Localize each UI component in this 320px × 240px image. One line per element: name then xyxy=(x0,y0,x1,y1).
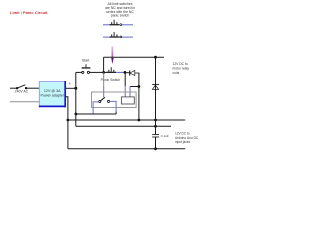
wire: start/panic line xyxy=(76,71,82,73)
svg-text:Limit / Panic Circuit: Limit / Panic Circuit xyxy=(10,10,48,15)
node: junction at panic drop xyxy=(102,71,105,74)
node: top wire junction xyxy=(154,56,157,59)
svg-text:Start: Start xyxy=(82,59,90,63)
wire: junction to diode xyxy=(125,72,129,74)
svg-text:12V @ 3A: 12V @ 3A xyxy=(44,89,61,93)
node: +12V tap xyxy=(75,113,78,116)
capacitor C1 xyxy=(152,135,159,137)
note: limit switches annotation xyxy=(105,2,135,18)
svg-text:C 1uF: C 1uF xyxy=(161,134,169,138)
svg-text:series with the NC: series with the NC xyxy=(106,10,134,14)
wire: adapter - output xyxy=(66,97,68,149)
svg-text:coils: coils xyxy=(173,71,180,75)
relay coil box xyxy=(121,97,134,104)
svg-text:Arduino Uno DC: Arduino Uno DC xyxy=(175,136,199,140)
wire: contact left lead (blue) xyxy=(93,102,99,114)
annotation arrow xyxy=(111,46,114,64)
wire: right 12V drop from top xyxy=(155,57,157,120)
node: rail junction at diode drop xyxy=(138,119,141,122)
svg-text:panic switch: panic switch xyxy=(111,14,130,18)
limit switch S2 xyxy=(103,32,133,38)
diode D1 (cathode left) xyxy=(130,71,140,76)
wire: ground rail xyxy=(68,119,185,121)
wire: cap top lead xyxy=(155,120,157,134)
pushbutton Panic Switch (NC) xyxy=(101,67,121,82)
svg-text:motor relay: motor relay xyxy=(173,67,190,71)
limit switch S1 xyxy=(103,20,133,26)
wire: adapter + output xyxy=(66,87,76,89)
wire: 240V AC neutral xyxy=(10,101,39,103)
node: ground tap xyxy=(67,119,70,122)
node: coil return junction xyxy=(138,85,141,88)
svg-text:All limit switches: All limit switches xyxy=(108,2,133,6)
svg-text:Power adapter: Power adapter xyxy=(41,94,65,98)
wire: bottom ground rail xyxy=(68,148,185,150)
svg-text:input jacks: input jacks xyxy=(175,140,190,144)
label: 12V DC to motor relay coils xyxy=(173,62,190,75)
wire: drop from top wire to start/panic line xyxy=(103,57,105,72)
node: + output junction xyxy=(74,87,77,90)
wire: coil pin 2 xyxy=(130,86,139,88)
svg-text:240V AC: 240V AC xyxy=(15,90,29,94)
wire: top 12V feed to motor relay coils xyxy=(104,56,164,58)
wire: +12V to contact xyxy=(76,113,116,115)
power adapter PS1 xyxy=(39,81,66,107)
wire: diode down to ground rail xyxy=(138,73,140,120)
node: coil feed junction xyxy=(124,71,127,74)
wire: +12V rail to arduino xyxy=(76,125,171,127)
switch: 240V AC mains xyxy=(10,85,39,94)
node: rail junction at right rail xyxy=(154,119,157,122)
node: bottom rail junction xyxy=(154,147,157,150)
svg-text:12V DC to: 12V DC to xyxy=(175,132,190,136)
relay actuator link xyxy=(103,72,105,86)
label: 12V DC to Arduino xyxy=(175,132,199,145)
relay enclosure box xyxy=(92,92,137,108)
svg-text:are NC and wired in: are NC and wired in xyxy=(105,6,135,10)
diode D2 (flyback, cathode up) xyxy=(152,84,159,89)
node: +12 arduino junction xyxy=(154,125,157,128)
wire: +12V vertical rail xyxy=(75,72,77,126)
wire: contact right lead (blue) xyxy=(110,101,117,111)
wire: cap bottom lead xyxy=(155,137,157,148)
wire: panic to junction (blue) xyxy=(116,71,125,73)
wire: coil pin 1 xyxy=(124,72,126,86)
svg-text:12V DC to: 12V DC to xyxy=(173,62,188,66)
pushbutton Start (NO) xyxy=(82,59,91,74)
relay contact (NO) xyxy=(99,97,110,102)
